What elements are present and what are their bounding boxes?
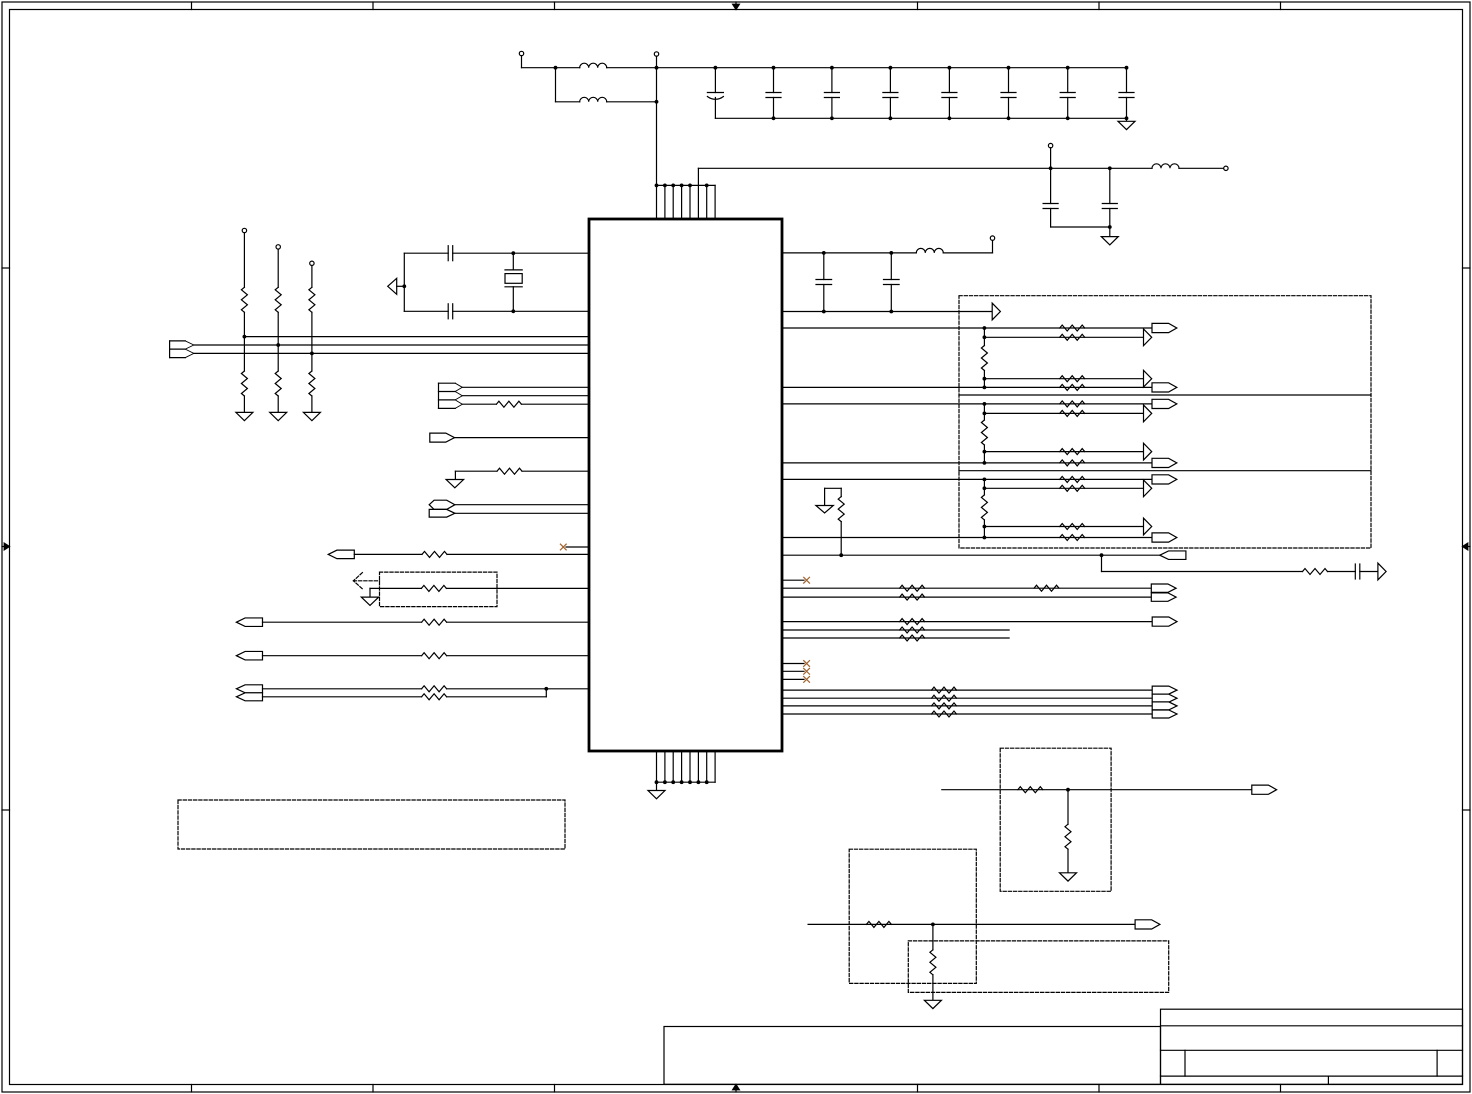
ground — [236, 412, 253, 420]
wire — [1067, 790, 1069, 825]
resistor R17 — [1060, 376, 1085, 382]
wire — [782, 327, 1152, 329]
wire — [447, 688, 589, 690]
ground — [924, 1000, 941, 1008]
wire — [983, 520, 985, 538]
node E — [1108, 166, 1112, 170]
resistor R13 — [422, 686, 447, 692]
resistor R6 — [309, 371, 315, 396]
wire — [657, 184, 716, 186]
resistor R37 — [900, 635, 925, 641]
inductor L2 — [580, 97, 607, 102]
node GCA — [983, 478, 987, 482]
node GAB2 — [983, 335, 987, 339]
capacitor C10 — [1102, 168, 1117, 227]
node GCC2 — [983, 525, 987, 529]
wire — [556, 67, 580, 69]
wire — [455, 437, 590, 439]
node C — [655, 100, 659, 104]
ground — [270, 412, 287, 420]
wire — [263, 655, 422, 657]
wire — [243, 337, 245, 371]
ground — [648, 782, 665, 799]
wire — [462, 386, 589, 388]
port P2 — [328, 550, 354, 559]
resistor R41 — [932, 711, 957, 717]
resistor R9 — [422, 551, 447, 557]
node S1 — [1066, 788, 1070, 792]
node GAC2 — [983, 377, 987, 381]
node N1 — [822, 251, 826, 255]
port O12 — [1152, 702, 1177, 710]
capacitor C12 — [884, 253, 900, 312]
terminal J6 — [276, 245, 280, 288]
wire — [194, 352, 589, 354]
wire — [1101, 555, 1103, 571]
wire — [782, 537, 1152, 539]
capacitor C13 — [448, 246, 453, 261]
power down arrow — [816, 488, 841, 513]
node M1 — [544, 687, 548, 691]
wire — [782, 311, 992, 313]
wire — [984, 412, 1143, 414]
connector CN3 — [429, 500, 455, 517]
option box DB5 — [908, 941, 1168, 993]
capacitor C7 — [1060, 66, 1075, 120]
wire — [782, 670, 804, 672]
node F — [1108, 225, 1112, 229]
terminal J5 — [242, 228, 246, 287]
resistor R32 — [900, 585, 925, 591]
resistor R20 — [1060, 401, 1085, 407]
port O9 — [1152, 617, 1177, 626]
wire — [984, 378, 1143, 380]
node G1 — [243, 335, 247, 339]
capacitor C3 — [824, 66, 839, 120]
wire — [1102, 571, 1303, 573]
wire — [263, 688, 422, 690]
port O8 — [1151, 593, 1176, 601]
node B — [655, 66, 659, 70]
top pin junctions — [655, 184, 709, 188]
resistor R8 — [497, 468, 522, 474]
node N4 — [889, 310, 893, 314]
wire — [984, 336, 1143, 338]
power down arrow — [446, 480, 464, 488]
wire — [521, 403, 589, 405]
capacitor C6 — [1001, 66, 1016, 120]
wire — [522, 470, 589, 472]
resistor R4 — [275, 371, 281, 396]
IC U1 — [589, 219, 782, 751]
node GAA — [983, 326, 987, 330]
wire — [311, 396, 313, 412]
resistor R5 — [309, 287, 315, 312]
resistor R15 — [1060, 325, 1085, 331]
wire — [1051, 226, 1110, 228]
capacitor C4 — [883, 66, 898, 120]
wire — [782, 587, 1151, 589]
wire — [782, 689, 1152, 691]
wire — [453, 310, 589, 312]
wire — [782, 478, 1152, 480]
wire — [782, 596, 1151, 598]
wire — [983, 404, 985, 420]
arrow GBB — [1144, 405, 1152, 422]
port O15 — [1135, 920, 1160, 929]
wire — [782, 713, 1152, 715]
wire — [522, 67, 556, 69]
wire — [782, 252, 916, 254]
capacitor C1 — [707, 66, 723, 119]
connector CN2 — [439, 383, 463, 408]
resistor R36 — [900, 627, 925, 633]
port O7 — [1151, 584, 1176, 592]
wire — [244, 336, 589, 338]
wire — [984, 451, 1143, 453]
capacitor C5 — [942, 66, 957, 120]
node N2 — [889, 251, 893, 255]
title block — [1161, 1009, 1463, 1084]
wire — [959, 470, 1371, 472]
resistor R16 — [1060, 334, 1085, 340]
wire — [984, 526, 1143, 528]
resistor R25 — [1060, 476, 1085, 482]
wire — [311, 312, 313, 353]
port P3 — [236, 618, 262, 627]
node N3 — [822, 310, 826, 314]
wire — [277, 345, 279, 371]
revision box — [664, 1027, 1161, 1085]
wire — [1179, 167, 1224, 169]
wire — [782, 462, 1152, 464]
terminal J8 — [990, 236, 994, 240]
port OGA1 — [1152, 323, 1177, 332]
power down arrow — [361, 597, 378, 605]
capacitor C14 — [448, 304, 453, 319]
capacitor C9 — [1043, 168, 1058, 227]
resistor R19 — [981, 346, 987, 371]
resistor R43 — [1065, 824, 1071, 849]
wire — [1328, 571, 1356, 573]
node H2 — [511, 309, 515, 313]
node GBC2 — [983, 450, 987, 454]
port O13 — [1152, 710, 1177, 718]
wire — [607, 67, 657, 69]
port P6 — [236, 693, 262, 701]
resistor R40 — [932, 703, 957, 709]
port OGC1 — [1152, 475, 1177, 484]
port OGB1 — [1152, 399, 1177, 408]
node GCD — [983, 536, 987, 540]
port OGC2 — [1152, 533, 1177, 542]
terminal J1 — [519, 51, 523, 67]
resistor R39 — [932, 695, 957, 701]
option box DB3 — [1000, 748, 1111, 891]
resistor R27 — [1060, 524, 1085, 530]
wire — [715, 117, 1126, 119]
crystal Y1 — [505, 253, 522, 311]
wire — [370, 588, 421, 597]
port P7 — [1160, 551, 1186, 560]
node G3 — [310, 352, 314, 356]
wire — [983, 328, 985, 346]
IC bottom pins — [657, 751, 716, 782]
port P1 — [430, 433, 455, 442]
connector CN1 — [170, 341, 194, 358]
wire — [657, 67, 1127, 69]
wire — [243, 312, 245, 336]
resistor R2 — [241, 371, 247, 396]
terminal J7 — [310, 261, 314, 287]
wire — [782, 637, 1009, 639]
resistor R26 — [1060, 485, 1085, 491]
wire — [808, 923, 1135, 925]
node S2 — [931, 923, 935, 927]
IC top pins — [657, 185, 716, 219]
wire — [1110, 167, 1152, 169]
notes box — [178, 800, 565, 849]
wire — [404, 310, 448, 312]
port O11 — [1152, 694, 1177, 702]
wire — [446, 587, 589, 589]
wire — [243, 396, 245, 412]
wire — [455, 504, 589, 506]
port O10 — [1152, 686, 1177, 694]
wire — [556, 101, 580, 103]
resistor R35 — [900, 619, 925, 625]
wire — [782, 403, 1152, 405]
arrow GAB — [1144, 329, 1152, 346]
wire — [404, 252, 448, 254]
wire — [782, 554, 1160, 556]
bottom pin junctions — [655, 780, 709, 784]
ground — [1118, 118, 1135, 129]
wire — [555, 68, 557, 102]
node D — [1049, 166, 1053, 170]
node GAD — [983, 386, 987, 390]
capacitor C11 — [816, 253, 832, 312]
power arrow — [388, 278, 405, 294]
wire — [447, 655, 589, 657]
wire — [983, 371, 985, 388]
resistor R28 — [1060, 535, 1085, 541]
wire — [782, 579, 804, 581]
resistor R24 — [981, 420, 987, 445]
inductor L4 — [916, 248, 943, 252]
wire — [697, 168, 699, 185]
node Q1 — [839, 553, 843, 557]
arrow A2 — [1378, 563, 1386, 580]
node GBA — [983, 402, 987, 406]
terminal J4 — [1224, 166, 1228, 170]
resistor R21 — [1060, 410, 1085, 416]
wire — [782, 629, 1009, 631]
wire — [455, 471, 497, 479]
wire — [656, 68, 658, 186]
resistor R38 — [932, 687, 957, 693]
wire — [782, 705, 1152, 707]
port OGA2 — [1152, 383, 1177, 392]
resistor R45 — [930, 950, 936, 975]
wire — [782, 697, 1152, 699]
wire — [447, 689, 547, 697]
no-connect X5 — [804, 677, 810, 683]
wire — [263, 696, 422, 698]
wire — [782, 386, 1152, 388]
resistor R14 — [422, 694, 447, 700]
resistor R22 — [1060, 449, 1085, 455]
node GBD — [983, 461, 987, 465]
port OGB2 — [1152, 458, 1177, 467]
ground — [1101, 227, 1118, 245]
wire — [277, 396, 279, 412]
port P4 — [236, 651, 262, 660]
terminal J2 — [654, 52, 658, 68]
terminal J3 — [1048, 143, 1052, 168]
no-connect X2 — [804, 577, 810, 583]
wire — [782, 678, 804, 680]
resistor R42 — [1018, 787, 1043, 793]
resistor R34 — [900, 594, 925, 600]
phantom arrow — [353, 573, 379, 589]
wire — [959, 394, 1371, 396]
resistor R3 — [275, 287, 281, 312]
wire — [984, 487, 1143, 489]
wire — [1360, 571, 1378, 573]
inductor L3 — [1152, 164, 1179, 169]
capacitor C8 — [1119, 66, 1134, 120]
capacitor C2 — [766, 66, 781, 120]
resistor R7 — [496, 401, 521, 407]
wire — [1067, 849, 1069, 873]
arrow GCC — [1144, 518, 1152, 535]
wire — [607, 101, 657, 103]
wire — [698, 167, 1109, 169]
node GCB2 — [983, 486, 987, 490]
option box DB1 — [380, 572, 498, 607]
resistor R11 — [422, 619, 447, 625]
wire — [932, 975, 934, 1001]
ground — [1060, 873, 1077, 881]
no-connect X1 — [560, 544, 566, 550]
inductor L1 — [580, 63, 607, 68]
wire — [277, 312, 279, 345]
wire — [354, 553, 422, 555]
resistor R18 — [1060, 384, 1085, 390]
wire — [455, 512, 589, 514]
ground — [303, 412, 320, 420]
port O14 — [1252, 785, 1277, 794]
option box DB4 — [849, 849, 976, 983]
wire — [403, 253, 405, 311]
no-connect X3 — [804, 661, 810, 667]
arrow GBC — [1144, 443, 1152, 460]
wire — [943, 240, 992, 253]
wire — [932, 924, 934, 949]
wire — [447, 621, 589, 623]
interface box DB2 — [959, 296, 1371, 548]
resistor R12 — [422, 653, 447, 659]
resistor R10 — [421, 585, 446, 591]
wire — [657, 781, 716, 783]
resistor R31 — [1303, 569, 1328, 575]
node Q2 — [1100, 553, 1104, 557]
resistor R30 — [838, 488, 844, 521]
wire — [942, 789, 1252, 791]
capacitor C15 — [1355, 564, 1360, 579]
port P5 — [236, 685, 262, 693]
resistor R1 — [241, 287, 247, 312]
node H1 — [511, 251, 515, 255]
wire — [194, 344, 589, 346]
arrow GCB — [1144, 480, 1152, 497]
node GBB2 — [983, 412, 987, 416]
node A — [554, 66, 558, 70]
node H3 — [402, 284, 406, 288]
wire — [782, 621, 1152, 623]
resistor R44 — [866, 921, 891, 927]
resistor R29 — [981, 495, 987, 520]
node G2 — [276, 343, 280, 347]
wire — [311, 353, 313, 371]
arrow A1 — [992, 303, 1000, 320]
wire — [983, 479, 985, 495]
no-connect X4 — [804, 668, 810, 674]
arrow GAC — [1144, 370, 1152, 387]
wire — [453, 252, 589, 254]
wire — [462, 403, 496, 405]
wire — [462, 395, 589, 397]
resistor R33 — [1034, 585, 1059, 591]
wire — [263, 621, 422, 623]
wire — [983, 445, 985, 463]
resistor R23 — [1060, 460, 1085, 466]
wire — [566, 546, 589, 548]
wire — [840, 522, 842, 556]
wire — [447, 553, 589, 555]
wire — [782, 663, 804, 665]
